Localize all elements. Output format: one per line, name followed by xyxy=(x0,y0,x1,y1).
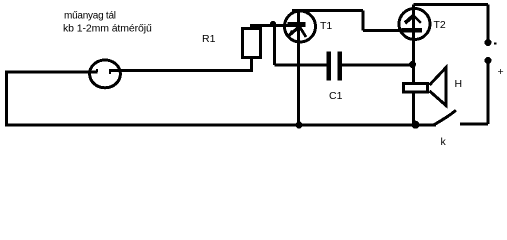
svg-text:T1: T1 xyxy=(320,20,332,32)
svg-text:T2: T2 xyxy=(434,19,446,31)
svg-text:k: k xyxy=(441,136,447,148)
svg-text:kb 1-2mm átmérőjű: kb 1-2mm átmérőjű xyxy=(63,23,152,35)
svg-text:C1: C1 xyxy=(329,90,343,102)
svg-text:R1: R1 xyxy=(202,33,216,45)
svg-text:+: + xyxy=(498,66,504,78)
svg-text:H: H xyxy=(455,78,463,90)
svg-text:műanyag tál: műanyag tál xyxy=(64,11,116,22)
